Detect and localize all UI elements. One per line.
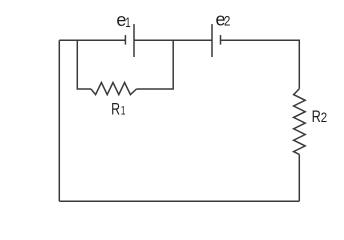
wire branch left drop (node at top wire to resistor R1) bbox=[77, 40, 91, 89]
svg-text:R: R bbox=[312, 107, 321, 126]
label e2 bbox=[216, 9, 231, 29]
battery e1 bbox=[125, 24, 134, 57]
wire resistor R1 to branch right drop (node at top wire) bbox=[137, 40, 174, 89]
wire left segment bbox=[58, 40, 60, 201]
resistor R2 bbox=[294, 89, 306, 155]
label e1 bbox=[116, 10, 130, 30]
svg-text:2: 2 bbox=[321, 110, 327, 125]
label R1 bbox=[111, 101, 126, 119]
svg-text:1: 1 bbox=[125, 16, 130, 31]
svg-text:R: R bbox=[111, 101, 120, 119]
wire bottom segment bbox=[59, 200, 299, 202]
resistor R1 bbox=[91, 83, 137, 95]
label R2 bbox=[312, 107, 328, 126]
battery e2 bbox=[212, 24, 221, 57]
wire top-left segment (left corner to battery e1) bbox=[59, 39, 125, 41]
svg-text:1: 1 bbox=[121, 105, 126, 118]
wire between battery e1 and battery e2 bbox=[134, 39, 212, 41]
wire resistor R2 to bottom-right corner bbox=[298, 154, 300, 201]
svg-text:2: 2 bbox=[224, 13, 230, 28]
wire battery e2 to top-right corner down to resistor R2 bbox=[221, 40, 300, 89]
